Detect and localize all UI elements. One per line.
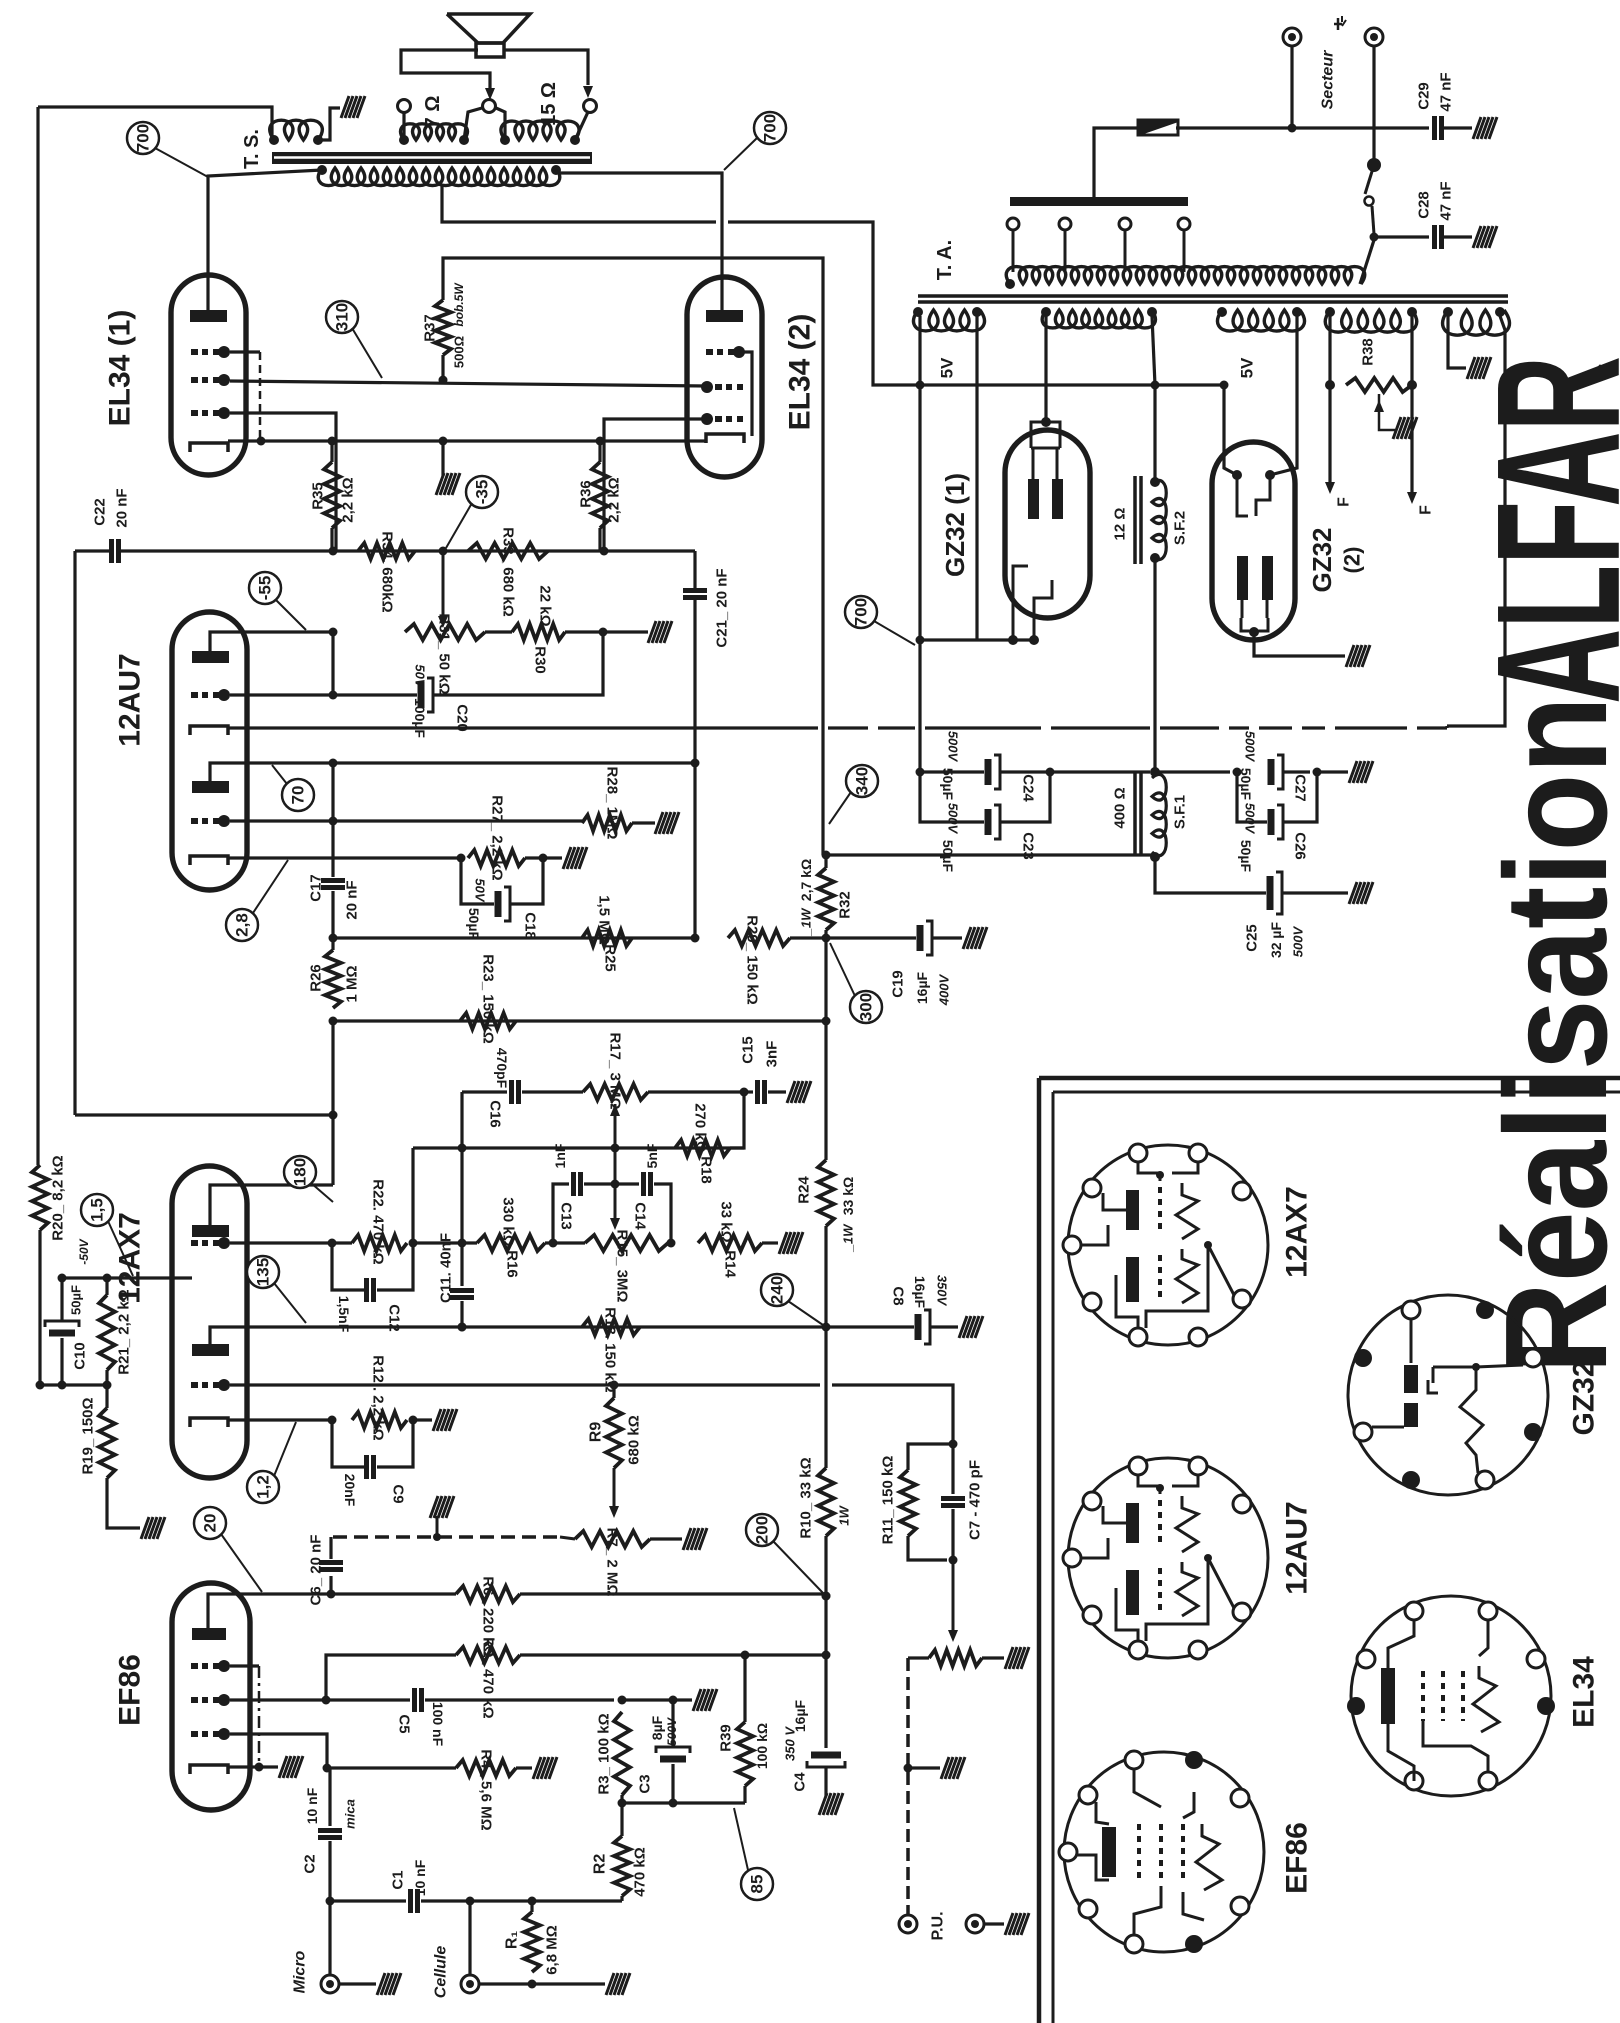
- svg-text:Cellule: Cellule: [433, 1946, 450, 1999]
- socket GZ32: [1348, 1295, 1548, 1495]
- svg-text:R3_ 100 kΩ: R3_ 100 kΩ: [596, 1713, 613, 1794]
- dot g2a: [329, 817, 338, 826]
- label 12ohm: [1112, 508, 1129, 541]
- wire micro gnd: [339, 1982, 376, 1985]
- resistor R27: [468, 850, 525, 866]
- svg-text:400 Ω: 400 Ω: [1112, 787, 1129, 828]
- wire R22-R16: [413, 1241, 477, 1244]
- svg-text:500V: 500V: [1243, 803, 1258, 835]
- dot R19 top: [103, 1381, 112, 1390]
- svg-text:50µF: 50µF: [940, 768, 956, 801]
- label C20 100uF: [412, 698, 428, 738]
- leader 20: [221, 1534, 262, 1592]
- socket EL34: [1347, 1596, 1555, 1796]
- label R35 value: [340, 477, 357, 522]
- speaker LS: [447, 14, 530, 57]
- dot k bus a: [257, 437, 266, 446]
- label R14: [722, 1250, 739, 1278]
- T.A. primary plate: [1010, 197, 1188, 206]
- svg-text:340: 340: [853, 767, 872, 795]
- svg-text:R19_ 150Ω: R19_ 150Ω: [80, 1397, 97, 1474]
- label R5: [480, 1637, 497, 1718]
- dot C5 a: [618, 1696, 627, 1705]
- resistor R10: [818, 1468, 834, 1536]
- svg-text:T. S.: T. S.: [241, 129, 263, 169]
- label Cellule: [433, 1946, 450, 1999]
- grid row g1x 12AX7: [191, 1237, 230, 1249]
- wire C25 gnd: [1282, 891, 1348, 894]
- dot sf2 bot: [1150, 553, 1160, 563]
- svg-text:300: 300: [857, 993, 876, 1021]
- dot prim r: [551, 165, 561, 175]
- elcap C26 loop: [1237, 772, 1317, 839]
- wiper R31: [438, 551, 448, 628]
- wire R26 top: [331, 938, 334, 950]
- dot k2 b: [539, 854, 548, 863]
- anode EL34(1): [190, 310, 227, 322]
- capacitor C12 loop: [332, 1243, 413, 1302]
- svg-text:C14: C14: [632, 1202, 649, 1230]
- svg-text:C19: C19: [890, 970, 907, 998]
- node 1,5: [81, 1194, 113, 1226]
- svg-text:bob.5W: bob.5W: [452, 282, 466, 327]
- label C2 10nF: [304, 1787, 320, 1824]
- svg-text:240: 240: [768, 1276, 787, 1304]
- wire C5 right: [425, 1698, 614, 1701]
- leader 300: [830, 943, 855, 996]
- bus below R10: [824, 1536, 827, 1748]
- title Realisation: [1475, 696, 1620, 1374]
- svg-text:GZ32: GZ32: [1307, 527, 1337, 592]
- wire C27: [1155, 770, 1230, 773]
- anode caps GZ32(1): [1028, 479, 1063, 519]
- dot k gnd: [439, 437, 448, 446]
- dot prim left: [1005, 279, 1015, 289]
- resistor R9: [606, 1398, 622, 1468]
- leader 85: [734, 1808, 748, 1870]
- resistor R36: [592, 462, 608, 528]
- node 200: [746, 1514, 778, 1546]
- resistor R31 pot: [405, 624, 485, 640]
- label R31: [436, 613, 453, 694]
- node 700V junction: [1151, 768, 1160, 777]
- svg-text:1W: 1W: [837, 1505, 852, 1526]
- label R27: [489, 795, 506, 880]
- svg-text:12AU7: 12AU7: [1281, 1501, 1314, 1594]
- grid row g1 EL34(1): [191, 407, 230, 419]
- label C23 50uF: [940, 840, 956, 873]
- wire prim center tap 700V: [442, 186, 920, 385]
- dot s2l: [1041, 307, 1051, 317]
- wire g2a 12AU7: [230, 819, 582, 822]
- wire speaker right: [503, 50, 588, 85]
- svg-text:330 kΩ: 330 kΩ: [500, 1197, 517, 1247]
- vertical a1-g1: [331, 632, 334, 695]
- svg-text:R32: R32: [837, 891, 854, 919]
- label C13 1nF: [552, 1143, 568, 1168]
- leader 700 c: [874, 621, 915, 645]
- ground PU tap: [941, 1757, 965, 1779]
- ground C5 wire: [693, 1689, 717, 1711]
- wire C25: [1155, 857, 1266, 893]
- svg-text:ALFAR: ALFAR: [1460, 356, 1620, 704]
- svg-text:R2: R2: [592, 1854, 609, 1875]
- svg-text:500Ω: 500Ω: [452, 336, 467, 368]
- svg-text:310: 310: [333, 303, 352, 331]
- arrow speaker left: [485, 88, 495, 100]
- dot rail c: [1220, 381, 1229, 390]
- dot c24 r: [1046, 768, 1055, 777]
- wire R38 right: [1410, 316, 1413, 385]
- label C20: [454, 704, 471, 732]
- svg-text:(2): (2): [1340, 547, 1365, 574]
- dot R5 r: [822, 1651, 831, 1660]
- resistor R34: [358, 543, 415, 559]
- capacitor C9 loop: [332, 1420, 413, 1479]
- svg-text:50V: 50V: [473, 878, 488, 902]
- wire C29 gnd: [1442, 126, 1472, 129]
- svg-text:2,2 kΩ: 2,2 kΩ: [340, 477, 357, 522]
- dot heater: [433, 1533, 441, 1541]
- svg-text:R12 . 2,2 kΩ: R12 . 2,2 kΩ: [370, 1355, 387, 1440]
- wire R1 top: [530, 1901, 533, 1912]
- label T.A.: [934, 240, 956, 280]
- svg-text:S.F.1: S.F.1: [1172, 795, 1189, 829]
- dot R16 r: [549, 1239, 558, 1248]
- label R22: [370, 1179, 387, 1264]
- dot R29 r: [822, 934, 831, 943]
- label C19 16uF: [914, 971, 930, 1004]
- wire 7ohm lead: [402, 112, 405, 140]
- label 15ohm: [538, 82, 560, 126]
- dot s5r: [1495, 307, 1505, 317]
- wire y1148: [413, 1146, 744, 1149]
- wire k1 12AX7: [62, 1276, 192, 1279]
- svg-text:C15: C15: [740, 1036, 757, 1064]
- grid row g1f EF86: [191, 1728, 230, 1740]
- wire PU2 gnd: [984, 1922, 1004, 1925]
- label R36 value: [606, 477, 623, 522]
- wire SF2 down: [1153, 558, 1156, 772]
- svg-text:100 nF: 100 nF: [430, 1702, 446, 1747]
- wire HT right to SF2: [1152, 316, 1155, 385]
- anode stem GZ32(2): [1241, 600, 1268, 631]
- label 12AU7: [114, 653, 147, 746]
- tube EL34(1) envelope: [171, 275, 246, 475]
- label R6: [480, 1576, 497, 1657]
- wire R4 gnd: [516, 1766, 532, 1769]
- label R38: [1360, 338, 1377, 366]
- svg-text:F: F: [1336, 497, 1353, 507]
- label C24 50uF: [940, 768, 956, 801]
- resistor R39: [737, 1722, 753, 1786]
- wire C13 row: [553, 1172, 615, 1243]
- wire R28 gnd: [632, 821, 655, 824]
- wire cellule: [468, 1901, 471, 1975]
- svg-text:R28_ 1MΩ: R28_ 1MΩ: [604, 767, 621, 840]
- wire 15ohm lead: [575, 112, 588, 140]
- resistor R37: [435, 300, 451, 355]
- resistor R5: [456, 1647, 520, 1663]
- elcap C19: [920, 921, 932, 955]
- node 700 b: [754, 112, 786, 144]
- label C2 mica: [343, 1799, 358, 1829]
- leader 180: [311, 1183, 333, 1202]
- ground fil2: [1467, 357, 1491, 379]
- wire C28 gnd: [1442, 235, 1472, 238]
- dot s4r: [1407, 307, 1417, 317]
- label C10: [72, 1342, 89, 1370]
- label C28 value: [1438, 181, 1455, 220]
- svg-text:20 nF: 20 nF: [344, 880, 361, 919]
- label R9: [588, 1422, 605, 1443]
- label C14: [632, 1202, 649, 1230]
- wire stem gnd: [1254, 632, 1345, 656]
- label C26 500V: [1243, 803, 1258, 835]
- leader 200: [773, 1541, 823, 1593]
- label R36: [578, 480, 595, 508]
- label R10 1W: [837, 1505, 852, 1526]
- anode2 12AU7: [192, 781, 229, 793]
- dot R20 b: [36, 1381, 45, 1390]
- label socket EF86: [1281, 1822, 1314, 1894]
- terminal tap: [483, 100, 496, 113]
- svg-text:EF86: EF86: [1281, 1822, 1314, 1894]
- resistor R32: [818, 868, 834, 930]
- wire anode1 12AX7: [210, 1185, 333, 1225]
- wire C24 right: [1000, 770, 1150, 773]
- dot s5l: [1443, 307, 1453, 317]
- dot R38 r: [1407, 380, 1417, 390]
- ground C15: [787, 1081, 811, 1103]
- node 1,2: [247, 1471, 279, 1503]
- label R9 value: [626, 1415, 643, 1465]
- jack Cellule: [461, 1975, 479, 1993]
- wire 5V2 right down: [1270, 316, 1297, 475]
- wire cellule-R1: [479, 1982, 560, 1985]
- wire sec1 right to ground: [318, 108, 340, 140]
- wire prim right to EL34(2) anode: [556, 170, 722, 310]
- wire fil2 left gnd: [1448, 316, 1466, 368]
- svg-text:R20_ 8,2 kΩ: R20_ 8,2 kΩ: [50, 1155, 67, 1240]
- label 5V a: [938, 357, 957, 378]
- label C13: [558, 1202, 575, 1230]
- resistor R19: [99, 1408, 115, 1478]
- svg-text:C7 - 470 pF: C7 - 470 pF: [967, 1460, 984, 1540]
- T.A. taps: [1007, 218, 1190, 272]
- svg-text:1nF: 1nF: [552, 1143, 568, 1168]
- resistor R38: [1346, 378, 1412, 392]
- vertical left x75: [73, 551, 76, 1115]
- dot sf1 top: [1150, 767, 1160, 777]
- core T.S.: [272, 152, 592, 164]
- ground C19: [963, 927, 987, 949]
- wire g1a 12AU7: [230, 693, 417, 696]
- svg-text:C28: C28: [1416, 191, 1433, 219]
- wire R7 left dashes: [560, 1537, 575, 1539]
- capacitor C5: [415, 1688, 422, 1712]
- ground cathode EL34: [436, 441, 460, 495]
- label R29: [744, 915, 761, 1005]
- label C27 50uF: [1238, 768, 1254, 801]
- wire R36 leads: [598, 441, 601, 551]
- label C12: [386, 1304, 403, 1332]
- dot R6 r: [822, 1592, 831, 1601]
- capacitor C17: [321, 881, 345, 888]
- svg-text:33 kΩ: 33 kΩ: [718, 1201, 735, 1242]
- wire C11 down: [460, 1301, 463, 1327]
- grid row g3f EF86: [191, 1660, 230, 1672]
- wire R5 right: [520, 1653, 823, 1656]
- svg-text:R25: R25: [602, 944, 619, 972]
- dot R32 top: [822, 851, 831, 860]
- dot g2f: [322, 1696, 331, 1705]
- label R37 value: [452, 282, 467, 368]
- label R4: [478, 1749, 495, 1830]
- jack secteur 1: [1283, 28, 1301, 46]
- label R35: [310, 482, 327, 510]
- wire g3-k EL34(2): [740, 352, 752, 436]
- wire g1x: [230, 1241, 352, 1244]
- svg-text:680 kΩ: 680 kΩ: [626, 1415, 643, 1465]
- svg-text:R37: R37: [422, 314, 439, 342]
- wiper pot PU: [948, 1560, 958, 1642]
- wire R9 top: [612, 1385, 615, 1398]
- frame inner: [1053, 1092, 1620, 2023]
- svg-text:500V: 500V: [1243, 731, 1258, 763]
- label R26: [308, 964, 325, 992]
- svg-text:2,2 kΩ: 2,2 kΩ: [606, 477, 623, 522]
- resistor R6: [456, 1586, 520, 1602]
- dot rail b: [1151, 381, 1160, 390]
- coil T.A. sec fil: [1325, 310, 1416, 332]
- label R18: [698, 1156, 715, 1184]
- tube 12AX7 envelope: [172, 1166, 247, 1478]
- svg-text:R16: R16: [504, 1250, 521, 1278]
- leader -55: [276, 600, 306, 630]
- wire R32 leads: [824, 855, 827, 938]
- svg-text:1 MΩ: 1 MΩ: [344, 965, 361, 1002]
- dot gz1 b2: [1029, 635, 1039, 645]
- svg-text:16µF: 16µF: [914, 971, 930, 1004]
- capacitor C22: [112, 539, 119, 563]
- svg-text:R39: R39: [718, 1724, 735, 1752]
- wire y1115: [75, 1113, 333, 1116]
- jack PU 1: [899, 1915, 917, 1933]
- wire prim right up: [1360, 240, 1374, 284]
- label C20 50V: [413, 664, 428, 688]
- label C10 50uF: [69, 1285, 84, 1315]
- svg-text:R14: R14: [722, 1250, 739, 1278]
- label C5 value: [430, 1702, 446, 1747]
- label R32 value: [798, 859, 814, 937]
- svg-text:200: 200: [753, 1516, 772, 1544]
- svg-text:C25: C25: [1244, 924, 1261, 952]
- resistor R14: [698, 1235, 762, 1251]
- ground R19: [141, 1517, 165, 1539]
- dot bus R6: [822, 1592, 831, 1601]
- wire C19 gnd: [932, 936, 962, 939]
- ground EF86 k: [279, 1756, 303, 1778]
- anode2 12AX7: [192, 1344, 229, 1356]
- label C23: [1020, 832, 1037, 860]
- socket EF86: [1059, 1751, 1264, 1953]
- wire R9 wiper: [609, 1468, 619, 1518]
- dot C3 b: [669, 1799, 678, 1808]
- label R25: [602, 944, 619, 972]
- dot anode top gz1: [1041, 417, 1051, 427]
- wire R31-R30: [485, 630, 512, 633]
- dot R9 top: [610, 1381, 619, 1390]
- label GZ32(2): [1307, 527, 1365, 592]
- resistor R16: [477, 1235, 545, 1251]
- label EL34(1): [104, 310, 137, 427]
- elcap C23 loop: [920, 772, 1050, 839]
- svg-text:1,2: 1,2: [254, 1475, 273, 1499]
- grid row g1 EL34(2): [701, 413, 743, 425]
- wire C21 top: [693, 551, 696, 590]
- wire C5: [326, 1698, 410, 1701]
- wire R37 bot: [441, 355, 444, 380]
- node 700 c: [845, 596, 877, 628]
- svg-text:S.F.2: S.F.2: [1172, 511, 1189, 545]
- wire g2x: [230, 1385, 953, 1444]
- svg-text:EF86: EF86: [114, 1654, 147, 1726]
- wire R19 gnd: [107, 1478, 140, 1528]
- svg-text:C9: C9: [390, 1484, 407, 1503]
- dot R3 b: [618, 1799, 627, 1808]
- wiper R17-R15: [610, 1104, 620, 1230]
- wire C27 gnd: [1283, 768, 1348, 777]
- wire 5V1 right down: [975, 316, 978, 640]
- svg-text:R₁: R₁: [504, 1931, 521, 1950]
- svg-text:R7_ 2 MΩ: R7_ 2 MΩ: [604, 1528, 621, 1597]
- svg-text:C22: C22: [92, 498, 109, 526]
- wire y1803: [622, 1801, 745, 1804]
- svg-text:R11_ 150 kΩ: R11_ 150 kΩ: [880, 1456, 897, 1545]
- svg-text:P.U.: P.U.: [930, 1911, 947, 1940]
- ground C25: [1349, 882, 1373, 904]
- wire y1768: [327, 1766, 456, 1769]
- shielded line PU: [906, 1658, 910, 1915]
- leader 1,2: [274, 1422, 296, 1476]
- jack PU 2: [966, 1915, 984, 1933]
- svg-text:20: 20: [201, 1514, 220, 1533]
- dot C7 b: [949, 1556, 958, 1565]
- svg-text:-35: -35: [473, 480, 492, 505]
- svg-text:C6_ 20 nF: C6_ 20 nF: [308, 1535, 325, 1606]
- svg-text:_1W: _1W: [799, 907, 814, 936]
- arrow speaker right: [583, 86, 593, 98]
- svg-text:C29: C29: [1416, 82, 1433, 110]
- ground R1: [606, 1973, 630, 1995]
- svg-text:R36: R36: [578, 480, 595, 508]
- vertical a1 12AX7 riser: [331, 1021, 334, 1185]
- svg-text:mica: mica: [343, 1799, 358, 1829]
- dot PU gnd: [904, 1764, 913, 1773]
- label R21: [116, 1289, 133, 1374]
- label R34: [379, 531, 396, 612]
- label C18 50V: [473, 878, 488, 902]
- dot R21 top: [103, 1274, 112, 1283]
- svg-text:350V: 350V: [935, 1275, 950, 1307]
- label R39: [718, 1724, 735, 1752]
- wire fil2 right down: [1447, 316, 1505, 726]
- capacitor C11: [450, 1291, 474, 1298]
- svg-text:R15_ 3MΩ: R15_ 3MΩ: [614, 1230, 631, 1303]
- wire C29: [1292, 126, 1429, 129]
- label C23 500V: [946, 803, 961, 835]
